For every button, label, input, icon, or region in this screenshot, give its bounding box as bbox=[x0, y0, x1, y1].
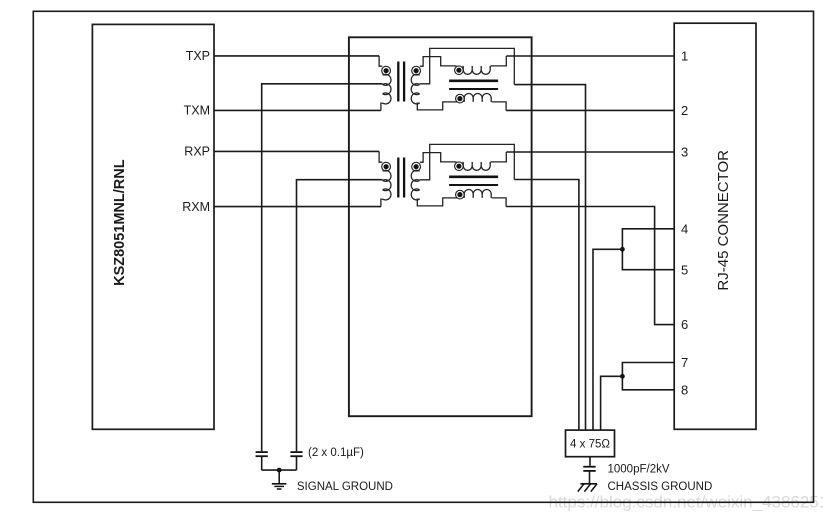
transformer T2 (RX) primary top entry step bbox=[379, 151, 382, 162]
svg-text:RXP: RXP bbox=[184, 145, 210, 159]
transformer T2 (RX) secondary winding with polarity dot bbox=[412, 162, 421, 171]
svg-text:4 x 75Ω: 4 x 75Ω bbox=[570, 439, 610, 451]
RJ-45 connector J1 box bbox=[674, 23, 756, 429]
wire pins 4/5 tee to termination bbox=[593, 249, 622, 430]
choke T2 (RX) bottom coil with dot bbox=[456, 190, 465, 199]
svg-text:7: 7 bbox=[681, 355, 688, 370]
svg-text:TXM: TXM bbox=[184, 104, 210, 118]
wire to RJ-45 pin 6 bbox=[506, 207, 674, 325]
capacitor C1 0.1uF bbox=[256, 451, 268, 453]
wire RJ-45 pins 7-8 bracket bbox=[622, 363, 674, 390]
svg-text:RXM: RXM bbox=[182, 200, 210, 214]
wire T1 (TX) secondary top to choke bbox=[420, 57, 457, 67]
resistor network RN1 box bbox=[566, 430, 615, 457]
capacitor C3 1000pF/2kV bbox=[583, 466, 595, 468]
svg-text:RJ-45 CONNECTOR: RJ-45 CONNECTOR bbox=[715, 150, 732, 291]
svg-text:5: 5 bbox=[681, 262, 688, 277]
choke T1 (TX) top coil with dot bbox=[455, 66, 464, 75]
transformer T1 (TX) primary top entry step bbox=[379, 56, 382, 66]
svg-text:1000pF/2kV: 1000pF/2kV bbox=[608, 464, 670, 476]
wire T2 (RX) secondary bottom to choke bbox=[417, 198, 457, 206]
transformer T1 (TX) secondary winding with polarity dot bbox=[412, 66, 421, 75]
wire T1 (TX) secondary center-tap over choke bbox=[420, 48, 515, 84]
junction node capacitor bus bbox=[277, 468, 282, 473]
choke T2 (RX) core bbox=[449, 176, 498, 179]
wire RJ-45 pins 4-5 bracket bbox=[622, 229, 674, 270]
svg-text:(2 x 0.1µF): (2 x 0.1µF) bbox=[308, 447, 364, 459]
transformer T1 (TX) core bbox=[397, 62, 399, 102]
wire RXM bbox=[214, 206, 381, 208]
svg-text:CHASSIS GROUND: CHASSIS GROUND bbox=[608, 481, 713, 493]
wire to RJ-45 pin 2 bbox=[506, 109, 674, 111]
wire bus to signal ground bbox=[278, 470, 280, 483]
svg-text:KSZ8051MNL/RNL: KSZ8051MNL/RNL bbox=[112, 159, 128, 286]
junction node pins 4/5 bbox=[620, 247, 625, 252]
wire T1 (TX) choke top exit bbox=[491, 56, 507, 66]
wire RXP bbox=[214, 150, 379, 152]
wire T1 (TX) secondary bottom to choke bbox=[417, 102, 457, 110]
choke T1 (TX) core bbox=[449, 80, 498, 83]
junction node pins 7/8 bbox=[620, 374, 625, 379]
svg-text:8: 8 bbox=[681, 382, 688, 397]
capacitor C2 0.1uF bbox=[290, 451, 302, 453]
svg-text:TXP: TXP bbox=[186, 49, 210, 63]
IC U1 KSZ8051MNL/RNL box bbox=[92, 24, 214, 429]
svg-text:SIGNAL GROUND: SIGNAL GROUND bbox=[297, 481, 393, 493]
transformer T2 (RX) primary winding with polarity dot bbox=[382, 162, 391, 171]
transformer T2 (RX) core bbox=[397, 158, 399, 198]
wire T2 (RX) secondary center-tap over choke bbox=[420, 144, 515, 179]
wire TXP bbox=[214, 55, 379, 57]
wire T2 (RX) secondary top to choke bbox=[420, 153, 457, 163]
wire pins 7/8 tee to termination bbox=[601, 376, 623, 430]
wire T1 (TX) center-tap exit to termination drop bbox=[514, 85, 585, 431]
choke T2 (RX) top coil with dot bbox=[455, 162, 464, 171]
wire to RJ-45 pin 3 bbox=[506, 151, 674, 153]
wire RN1 to C3 bbox=[589, 457, 591, 466]
wire T2 (RX) choke top exit bbox=[491, 152, 507, 162]
transformer T1 (TX) primary winding with polarity dot bbox=[382, 66, 391, 75]
transformer T1 (TX) primary bottom exit step bbox=[381, 103, 383, 110]
wire TXM bbox=[214, 109, 381, 111]
transformer T2 (RX) primary bottom exit step bbox=[381, 199, 383, 207]
wire T1 (TX) choke bottom exit bbox=[492, 102, 507, 111]
wire T2 (RX) center-tap exit to termination drop bbox=[514, 180, 579, 431]
chassis ground symbol bbox=[580, 483, 597, 485]
svg-text:1: 1 bbox=[681, 49, 688, 64]
choke T1 (TX) bottom coil with dot bbox=[456, 94, 465, 103]
svg-text:6: 6 bbox=[681, 317, 688, 332]
svg-text:4: 4 bbox=[681, 221, 688, 236]
wire RX primary center-tap to C2 bbox=[297, 180, 383, 452]
magnetics module box bbox=[349, 37, 532, 416]
wire to RJ-45 pin 1 bbox=[506, 55, 674, 57]
wire TX primary center-tap to C1 bbox=[262, 84, 383, 451]
signal ground symbol bbox=[272, 483, 287, 485]
svg-text:2: 2 bbox=[681, 103, 688, 118]
wire C3 to chassis ground bbox=[589, 471, 591, 484]
wire T2 (RX) choke bottom exit bbox=[492, 198, 507, 207]
svg-text:3: 3 bbox=[681, 145, 688, 160]
wire capacitor common bus bbox=[262, 469, 297, 471]
